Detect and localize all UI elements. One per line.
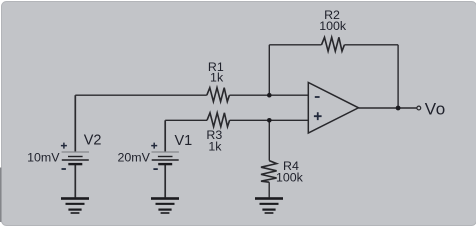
wire: junction down to R4 <box>268 120 270 160</box>
svg-text:100k: 100k <box>276 170 304 184</box>
battery V2 minus sign <box>62 168 66 170</box>
svg-text:1k: 1k <box>208 139 222 153</box>
output terminal (open circle) <box>417 106 421 110</box>
battery V2 plus sign <box>61 143 67 149</box>
battery V1 <box>152 152 179 164</box>
node: output junction <box>396 106 401 111</box>
wire: V1 top horizontal to R3 (non-inverting input row) <box>165 119 207 121</box>
wire: V2 battery to ground <box>74 164 76 197</box>
wire: R3 to op-amp non-inverting input <box>230 119 309 121</box>
battery V2 <box>62 152 89 164</box>
wire: V1 battery to ground <box>164 164 166 197</box>
node A: inverting input junction <box>267 93 272 98</box>
svg-text:1k: 1k <box>210 70 224 84</box>
wire: feedback right vertical to output <box>397 45 399 108</box>
op-amp inverting input marker <box>315 96 320 98</box>
wire: feedback left vertical <box>268 45 270 95</box>
op-amp U1 <box>308 83 358 134</box>
svg-text:V2: V2 <box>84 133 102 149</box>
resistor R4 <box>261 161 277 183</box>
ground (V2) <box>61 197 89 214</box>
svg-text:10mV: 10mV <box>27 150 60 164</box>
wire: R4 to ground <box>268 182 270 197</box>
svg-text:Vo: Vo <box>425 100 446 119</box>
wire: V1 vertical above battery <box>164 120 166 152</box>
node B: non-inverting input junction <box>267 118 272 123</box>
wire: V2 vertical above battery <box>74 95 76 152</box>
ground (R4) <box>255 197 283 214</box>
ground (V1) <box>151 197 179 214</box>
wire: R1 to op-amp inverting input <box>229 94 308 96</box>
battery V1 minus sign <box>153 168 157 170</box>
svg-text:V1: V1 <box>175 133 193 149</box>
battery V1 plus sign <box>151 143 157 149</box>
resistor R2 <box>322 37 345 51</box>
wire: V2 top horizontal to R1 (inverting input row) <box>75 94 207 96</box>
wire: op-amp output to Vo terminal <box>359 107 417 109</box>
op-amp non-inverting input marker <box>314 112 322 120</box>
wire: feedback top left segment <box>269 44 321 46</box>
svg-text:20mV: 20mV <box>118 150 151 164</box>
page edge artifact line <box>0 168 1 223</box>
resistor R1 <box>207 88 230 102</box>
svg-text:100k: 100k <box>319 19 347 33</box>
resistor R3 <box>207 113 230 127</box>
wire: feedback top right segment <box>344 44 398 46</box>
